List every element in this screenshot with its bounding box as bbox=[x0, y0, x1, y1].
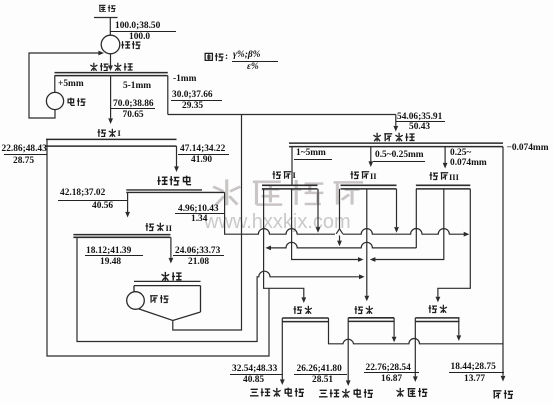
process label table I label 摇床 bbox=[272, 170, 295, 180]
wire crusher to washing-screen bbox=[108, 54, 113, 71]
stream size label 0.074mm bbox=[450, 158, 487, 168]
jig I concentrate wire down-right loop bbox=[47, 139, 269, 356]
value label 32.54;48.33/40.85 bbox=[232, 364, 277, 374]
jig II tailing wire to grinding classify bbox=[169, 237, 174, 263]
value label 47.14;34.22/41.90 bbox=[180, 144, 225, 154]
slime wire -0.074mm to tailings bbox=[501, 147, 506, 382]
jig II machine bar bbox=[73, 235, 170, 238]
value label 22.86;48.43/28.75 bbox=[2, 144, 47, 154]
process label jig II label 跳汰 bbox=[145, 222, 172, 232]
dewater III overflow wire bbox=[456, 318, 461, 341]
watermark 浩鑫矿机 bbox=[208, 177, 366, 207]
value label 42.18;37.02/40.56 bbox=[60, 188, 105, 198]
jig II concentrate wire to dewater II riser (line D) bbox=[77, 237, 360, 341]
stream size label -0.074mm bbox=[507, 143, 549, 153]
wire 0.25-0.074mm to table III bbox=[443, 147, 448, 169]
value label 26.26;41.80/28.51 bbox=[297, 364, 342, 374]
table II concentrate wire hop over line A to line B bbox=[336, 189, 343, 246]
mag-sep machine bar bbox=[126, 190, 224, 193]
process label mid-crusher label 中碎 bbox=[66, 97, 86, 107]
table I machine bar bbox=[262, 185, 318, 189]
jig I machine bar bbox=[46, 139, 177, 146]
process label dewater II label 脱水 bbox=[354, 305, 374, 315]
middlings/concentrate return line B bbox=[265, 242, 416, 250]
process label crusher label 粗碎 bbox=[121, 40, 141, 50]
table I middling wire (line C left) bbox=[292, 189, 364, 262]
process label legend label 图例 bbox=[204, 52, 224, 62]
process label mag-sep label 强磁选 bbox=[157, 175, 192, 186]
dewater I box bar bbox=[282, 318, 328, 322]
table III concentrate wire (line B right) bbox=[415, 189, 417, 248]
process label raw ore 原矿 bbox=[98, 4, 116, 13]
process label classify label 分级 (mill) bbox=[160, 271, 182, 282]
wire +5mm to mid-crusher bbox=[54, 76, 56, 93]
mill discharge wire up to hydro-classifier bbox=[173, 115, 242, 330]
process label product 二级放电锰 bbox=[249, 387, 305, 397]
dewater I product wire bbox=[280, 318, 285, 385]
wire -1mm to hydro-classifier bbox=[168, 114, 396, 116]
process label dewater III label 脱水 bbox=[428, 304, 448, 314]
wire into hydro-classifier bbox=[393, 115, 398, 132]
wire 5-1mm to jig I bbox=[108, 76, 113, 124]
mag tailing wire + tailing collector line A bbox=[225, 192, 470, 236]
value label 100.0;38.50/100.0 bbox=[115, 21, 160, 31]
washing screen bar bbox=[55, 73, 168, 76]
stream size label 0.25~ bbox=[450, 148, 471, 158]
mid-crusher 中碎 circle bbox=[46, 92, 63, 109]
table II machine bar bbox=[341, 185, 397, 189]
stream size label 1~5mm bbox=[296, 148, 326, 158]
wire 1-5mm to table I bbox=[291, 147, 293, 186]
feed wire to crusher bbox=[109, 18, 111, 36]
dewater III product wire bbox=[413, 318, 418, 382]
table II tailing wire to line A bbox=[394, 189, 399, 233]
value label 22.76;28.54/16.87 bbox=[366, 363, 411, 373]
dewater II overflow wire bbox=[392, 318, 397, 343]
process label hydro-classifier label 水力分级 bbox=[372, 132, 415, 142]
value label 54.06;35.91/50.43 bbox=[397, 112, 442, 122]
process label classify label 分级 bbox=[113, 62, 133, 72]
table I tailing wire to line A bbox=[316, 189, 321, 233]
dewater II box bar bbox=[348, 318, 394, 322]
recycle wire from 中碎 to 粗碎 bbox=[29, 51, 104, 118]
dewater I overflow + waste water line bbox=[329, 318, 504, 344]
table III tailing wire to dewater III bbox=[436, 189, 471, 303]
dewater III box bar bbox=[415, 318, 459, 322]
process label dewater I label 脱水 bbox=[293, 305, 313, 315]
dewater II product wire bbox=[346, 318, 351, 386]
process label product 尾矿 tailings bbox=[492, 389, 514, 399]
jig I tailing wire to mag-sep bbox=[174, 146, 179, 172]
table III middling wire (line C right) bbox=[370, 189, 444, 262]
mag concentrate wire to jig II bbox=[125, 192, 130, 217]
mill drive circle bbox=[127, 292, 145, 310]
table III machine bar bbox=[416, 185, 470, 189]
process label jig I label 跳汰 bbox=[97, 128, 120, 138]
mill body 磨矿 bbox=[134, 281, 201, 320]
value label 18.12;41.39/19.48 bbox=[86, 246, 131, 256]
process label washing label 洗矿 bbox=[89, 62, 109, 72]
watermark www.hxxkjx.com bbox=[204, 211, 351, 234]
process label product 冶金锰 bbox=[395, 387, 428, 397]
wire 0.5-0.25mm to table II bbox=[368, 147, 373, 167]
value label 70.0;38.86/70.65 bbox=[113, 99, 154, 109]
hydro-classifier machine bar bbox=[289, 143, 503, 147]
stream size label 0.5~0.25mm bbox=[375, 150, 424, 160]
value label 4.96;10.43/1.34 bbox=[178, 204, 219, 214]
stream size label -1mm bbox=[173, 74, 196, 84]
process label table II label 摇床 bbox=[350, 170, 377, 180]
stream size label 5-1mm bbox=[123, 81, 151, 91]
value label 30.0;37.66/29.35 bbox=[172, 90, 213, 100]
process label table III label 摇床 bbox=[429, 171, 459, 181]
value label 18.44;28.75/13.77 bbox=[451, 362, 496, 372]
table I concentrate wire to dewater I bbox=[264, 189, 307, 303]
value label 24.06;33.73/21.08 bbox=[175, 246, 220, 256]
wire -1mm down bbox=[167, 76, 169, 115]
process label product 三级放电锰 bbox=[318, 388, 374, 398]
middlings collector wire to dewater II bbox=[364, 189, 369, 301]
crusher 粗碎 circle bbox=[101, 35, 120, 54]
process label mill label 磨矿 bbox=[149, 294, 169, 304]
raw ore underbar bbox=[94, 17, 118, 19]
stream size label +5mm bbox=[58, 79, 84, 89]
